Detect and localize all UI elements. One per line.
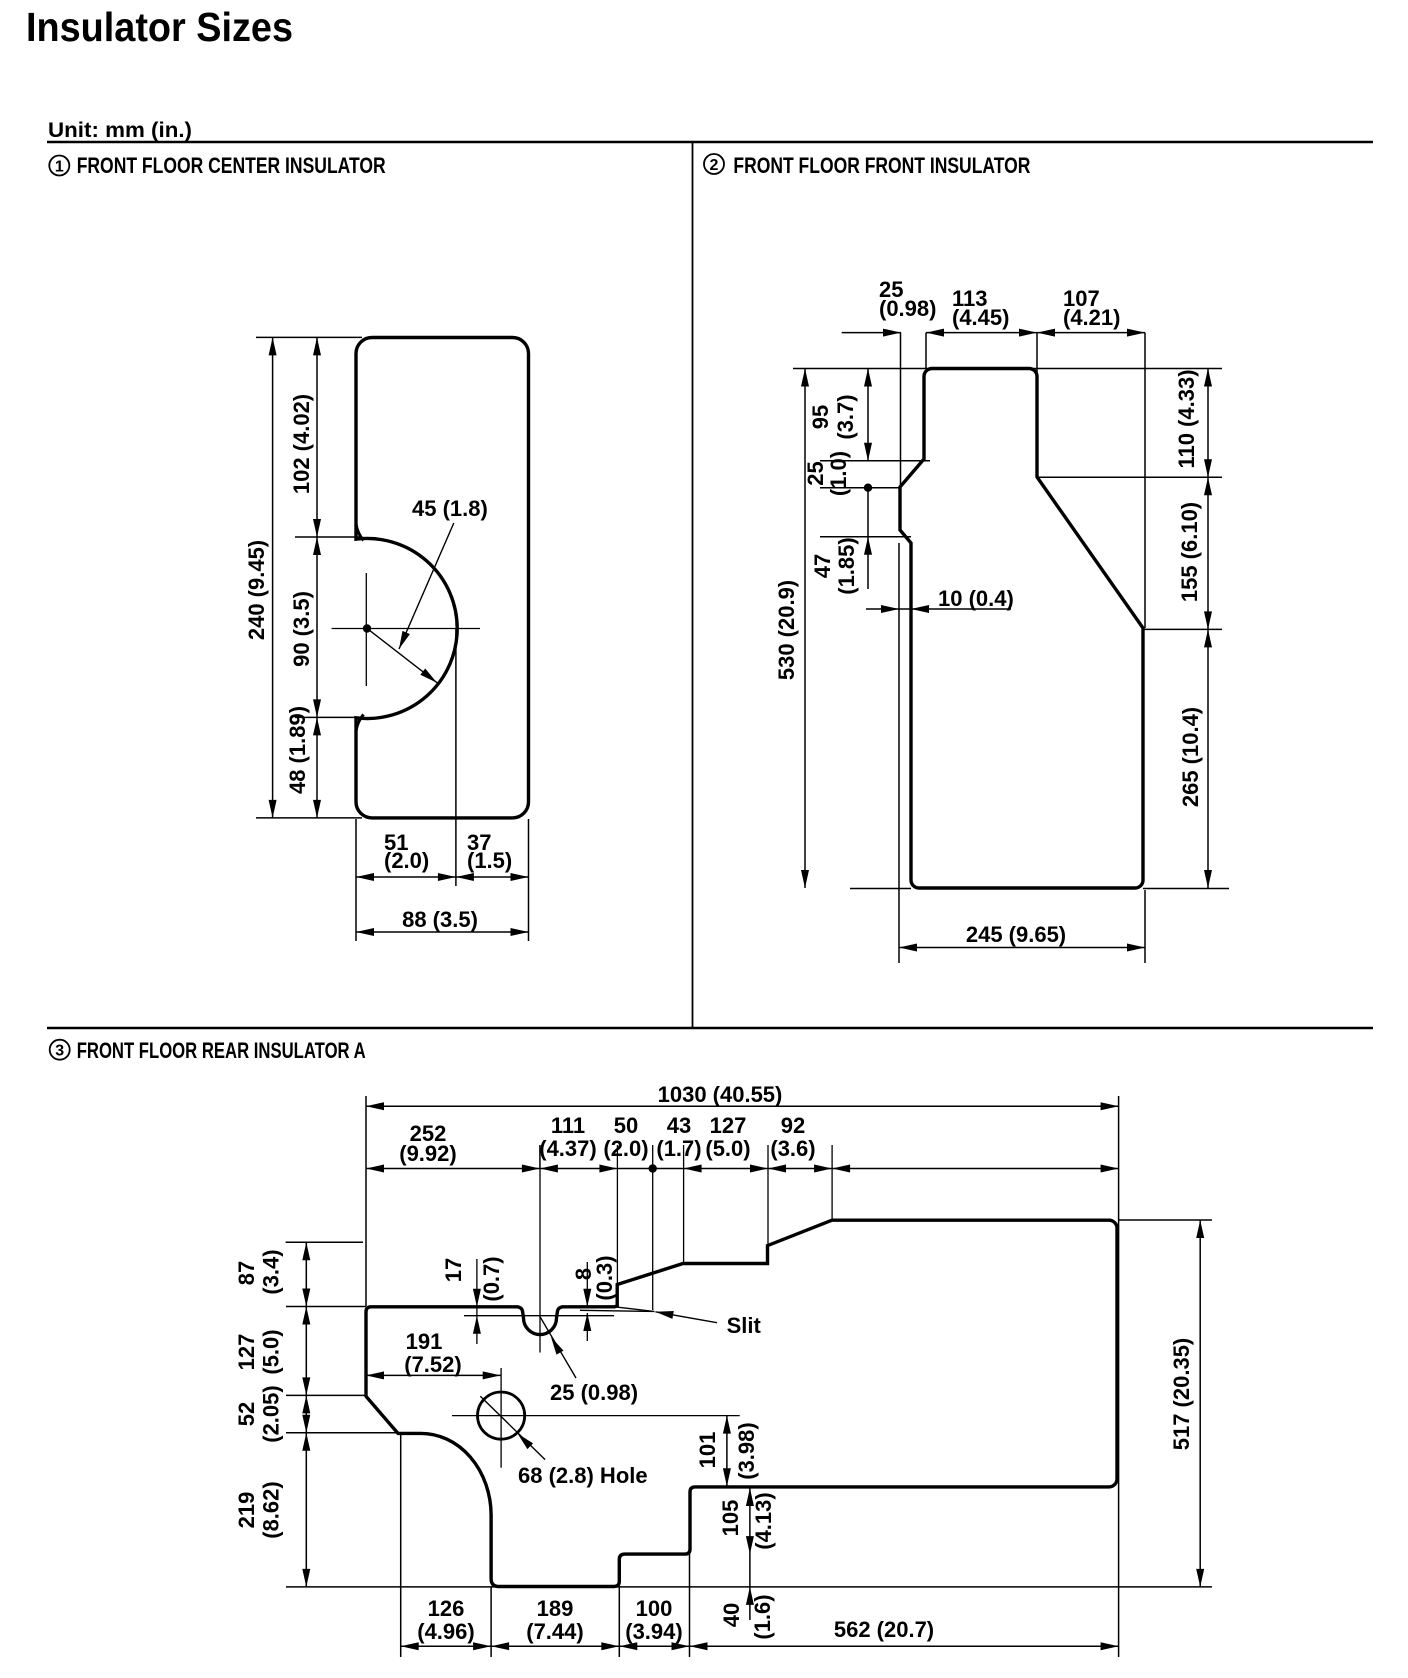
- svg-text:87: 87: [234, 1261, 259, 1285]
- panel1 notch center crosshair: [332, 628, 480, 630]
- svg-text:Slit: Slit: [727, 1313, 762, 1338]
- svg-text:3: 3: [55, 1043, 64, 1060]
- panel2 dim 95 (3.7): [867, 369, 869, 461]
- svg-text:1: 1: [55, 158, 64, 175]
- panel1 dim 37 (1.5): [456, 876, 529, 878]
- panel1 notch flares: [356, 524, 364, 541]
- panel divider vertical: [692, 142, 694, 1028]
- svg-text:2: 2: [710, 157, 719, 174]
- panel1 radius leader lower: [368, 629, 438, 683]
- svg-text:265 (10.4): 265 (10.4): [1178, 707, 1203, 807]
- svg-text:(3.7): (3.7): [833, 394, 858, 439]
- panel1 dim 51 (2.0): [356, 876, 456, 878]
- panel1 bottom extension lines: [355, 819, 357, 941]
- svg-text:25 (0.98): 25 (0.98): [550, 1380, 638, 1405]
- svg-text:(1.5): (1.5): [467, 848, 512, 873]
- panel2 dim 47 (1.85): [867, 488, 869, 589]
- panel3 dim 8 (0.3): [586, 1262, 588, 1306]
- svg-text:(1.0): (1.0): [826, 451, 851, 496]
- svg-text:FRONT FLOOR REAR INSULATOR A: FRONT FLOOR REAR INSULATOR A: [77, 1038, 366, 1063]
- svg-text:189: 189: [537, 1596, 574, 1621]
- panel1 dim 102 (4.02): [316, 337, 318, 537]
- panel3 right ext horizontals: [1119, 1219, 1212, 1221]
- panel3 notch leader 25 (0.98): [540, 1317, 576, 1378]
- panel3 left ext horizontals: [286, 1241, 363, 1243]
- svg-text:102 (4.02): 102 (4.02): [289, 394, 314, 494]
- svg-text:517 (20.35): 517 (20.35): [1169, 1338, 1194, 1451]
- svg-text:(4.37): (4.37): [539, 1136, 596, 1161]
- panel1 dim 88 (3.5): [356, 931, 529, 933]
- svg-text:95: 95: [808, 405, 833, 429]
- svg-text:10 (0.4): 10 (0.4): [938, 586, 1014, 611]
- panel2 dim 107 (4.21): [1037, 332, 1145, 334]
- svg-text:(5.0): (5.0): [705, 1136, 750, 1161]
- panel1 dim 48 (1.89): [316, 717, 318, 818]
- panel3 slit leader and label: [655, 1312, 717, 1323]
- svg-text:90 (3.5): 90 (3.5): [289, 591, 314, 667]
- svg-text:25: 25: [803, 461, 828, 485]
- svg-text:(2.0): (2.0): [384, 848, 429, 873]
- title circled 2: [704, 154, 724, 174]
- panel3 top ext verticals: [365, 1096, 367, 1306]
- svg-text:105: 105: [718, 1500, 743, 1537]
- panel3 slit lines: [580, 1310, 655, 1311]
- panel2 insulator outline: [900, 369, 1143, 889]
- svg-text:(0.98): (0.98): [879, 296, 936, 321]
- panel3 hole leader 68 (2.8) Hole: [480, 1396, 545, 1459]
- panel1 extension lines: [256, 336, 362, 338]
- svg-text:(4.13): (4.13): [751, 1492, 776, 1549]
- header rule: [47, 141, 1373, 144]
- panel3 dim 40 (1.6): [746, 1587, 754, 1605]
- svg-text:52: 52: [234, 1402, 259, 1426]
- svg-text:(1.7): (1.7): [656, 1136, 701, 1161]
- svg-text:17: 17: [441, 1258, 466, 1282]
- svg-text:45 (1.8): 45 (1.8): [412, 496, 488, 521]
- svg-text:FRONT FLOOR FRONT INSULATOR: FRONT FLOOR FRONT INSULATOR: [733, 153, 1030, 178]
- panel3 dim 17 (0.7): [476, 1259, 478, 1344]
- svg-text:92: 92: [781, 1113, 805, 1138]
- panel3 dim 219 (8.62): [305, 1433, 307, 1587]
- panel1 insulator outline: [356, 338, 529, 818]
- svg-text:(1.85): (1.85): [834, 537, 859, 594]
- svg-text:47: 47: [810, 554, 835, 578]
- svg-text:(0.7): (0.7): [479, 1256, 504, 1301]
- panel2 right ext horizontals: [1037, 476, 1222, 478]
- svg-text:(4.96): (4.96): [417, 1619, 474, 1644]
- panel3 notch crosshair: [539, 1145, 541, 1353]
- panel1 dim 90 (3.5): [316, 537, 318, 717]
- svg-text:(4.21): (4.21): [1063, 305, 1120, 330]
- panel3 dim 1030 (40.55): [366, 1105, 1119, 1107]
- panel1 dim 240 (9.45): [272, 337, 274, 818]
- svg-text:(2.0): (2.0): [603, 1136, 648, 1161]
- svg-text:68 (2.8) Hole: 68 (2.8) Hole: [518, 1463, 648, 1488]
- svg-text:Unit: mm (in.): Unit: mm (in.): [48, 119, 192, 142]
- svg-text:101: 101: [695, 1432, 720, 1469]
- svg-text:1030 (40.55): 1030 (40.55): [658, 1082, 783, 1107]
- svg-text:40: 40: [719, 1603, 744, 1627]
- panel3 hole circle 68: [478, 1392, 525, 1439]
- panel3 dim 87 (3.4): [305, 1242, 307, 1306]
- panel2 top extension verticals: [900, 333, 902, 487]
- panel2 top horizontal ext: [793, 368, 1222, 370]
- svg-text:562 (20.7): 562 (20.7): [834, 1617, 934, 1642]
- svg-text:(3.6): (3.6): [770, 1136, 815, 1161]
- svg-text:127: 127: [234, 1334, 259, 1371]
- panel2 left ext horizontals: [820, 460, 930, 462]
- svg-text:191: 191: [406, 1329, 443, 1354]
- panel2 dim 265 (10.4): [1207, 629, 1209, 888]
- panel3 dim 191 (7.52): [366, 1374, 501, 1376]
- svg-text:50: 50: [614, 1113, 638, 1138]
- svg-text:48 (1.89): 48 (1.89): [285, 706, 310, 794]
- middle rule: [47, 1027, 1373, 1030]
- panel3 dim 105 (4.13): [749, 1488, 751, 1620]
- svg-text:43: 43: [667, 1113, 691, 1138]
- panel3 dim 127 (5.0) left: [305, 1307, 307, 1396]
- panel2 dim 25 (0.98) top: [842, 332, 901, 334]
- svg-text:(7.52): (7.52): [404, 1352, 461, 1377]
- panel2 dim 155 (6.10): [1207, 477, 1209, 629]
- svg-text:(0.3): (0.3): [592, 1255, 617, 1300]
- panel3 insulator outline: [366, 1220, 1117, 1586]
- svg-text:(3.4): (3.4): [259, 1249, 284, 1294]
- svg-text:(4.45): (4.45): [952, 305, 1009, 330]
- svg-text:530 (20.9): 530 (20.9): [774, 580, 799, 680]
- title circled 1: [49, 156, 69, 176]
- svg-text:240 (9.45): 240 (9.45): [244, 540, 269, 640]
- svg-text:127: 127: [710, 1113, 747, 1138]
- svg-text:219: 219: [234, 1492, 259, 1529]
- svg-text:Insulator Sizes: Insulator Sizes: [26, 4, 293, 50]
- svg-text:100: 100: [636, 1596, 673, 1621]
- panel3 bottom ext verticals: [400, 1433, 402, 1657]
- panel2 dim 113 (4.45): [926, 332, 1037, 334]
- svg-text:155 (6.10): 155 (6.10): [1177, 502, 1202, 602]
- svg-text:110 (4.33): 110 (4.33): [1174, 369, 1199, 468]
- panel2 dim 245 (9.65): [899, 947, 1145, 949]
- panel3 dim 101 (3.98): [726, 1416, 728, 1487]
- svg-text:FRONT FLOOR CENTER INSULATOR: FRONT FLOOR CENTER INSULATOR: [77, 153, 386, 178]
- panel3 dim row 252/111/50/43/127/92: [366, 1168, 1119, 1170]
- svg-text:111: 111: [551, 1113, 585, 1138]
- panel3 dim 517 (20.35): [1199, 1220, 1201, 1587]
- panel2 dim 25 (1.0) boundary dot: [864, 484, 872, 492]
- svg-text:(5.0): (5.0): [259, 1329, 284, 1374]
- svg-text:(7.44): (7.44): [526, 1619, 583, 1644]
- svg-text:(3.98): (3.98): [734, 1422, 759, 1479]
- panel3 dim 52 (2.05): [305, 1395, 307, 1432]
- title circled 3: [50, 1040, 70, 1060]
- svg-text:(2.05): (2.05): [259, 1385, 284, 1442]
- svg-text:(1.6): (1.6): [750, 1594, 775, 1639]
- panel2 dim 530 (20.9): [804, 369, 806, 889]
- panel2 bottom ext verticals: [1144, 890, 1146, 963]
- svg-text:126: 126: [428, 1596, 465, 1621]
- panel3 bottom dim line: [401, 1645, 1119, 1647]
- svg-text:245 (9.65): 245 (9.65): [966, 922, 1066, 947]
- svg-text:(9.92): (9.92): [399, 1141, 456, 1166]
- panel3 hole crosshair: [452, 1415, 740, 1417]
- svg-text:(8.62): (8.62): [259, 1481, 284, 1538]
- svg-text:(3.94): (3.94): [625, 1619, 682, 1644]
- panel1 radius leader upper: [399, 523, 454, 649]
- svg-text:88 (3.5): 88 (3.5): [402, 907, 478, 932]
- panel2 dim 110 (4.33): [1207, 369, 1209, 478]
- panel2 dim 10 (0.4): [866, 608, 1011, 610]
